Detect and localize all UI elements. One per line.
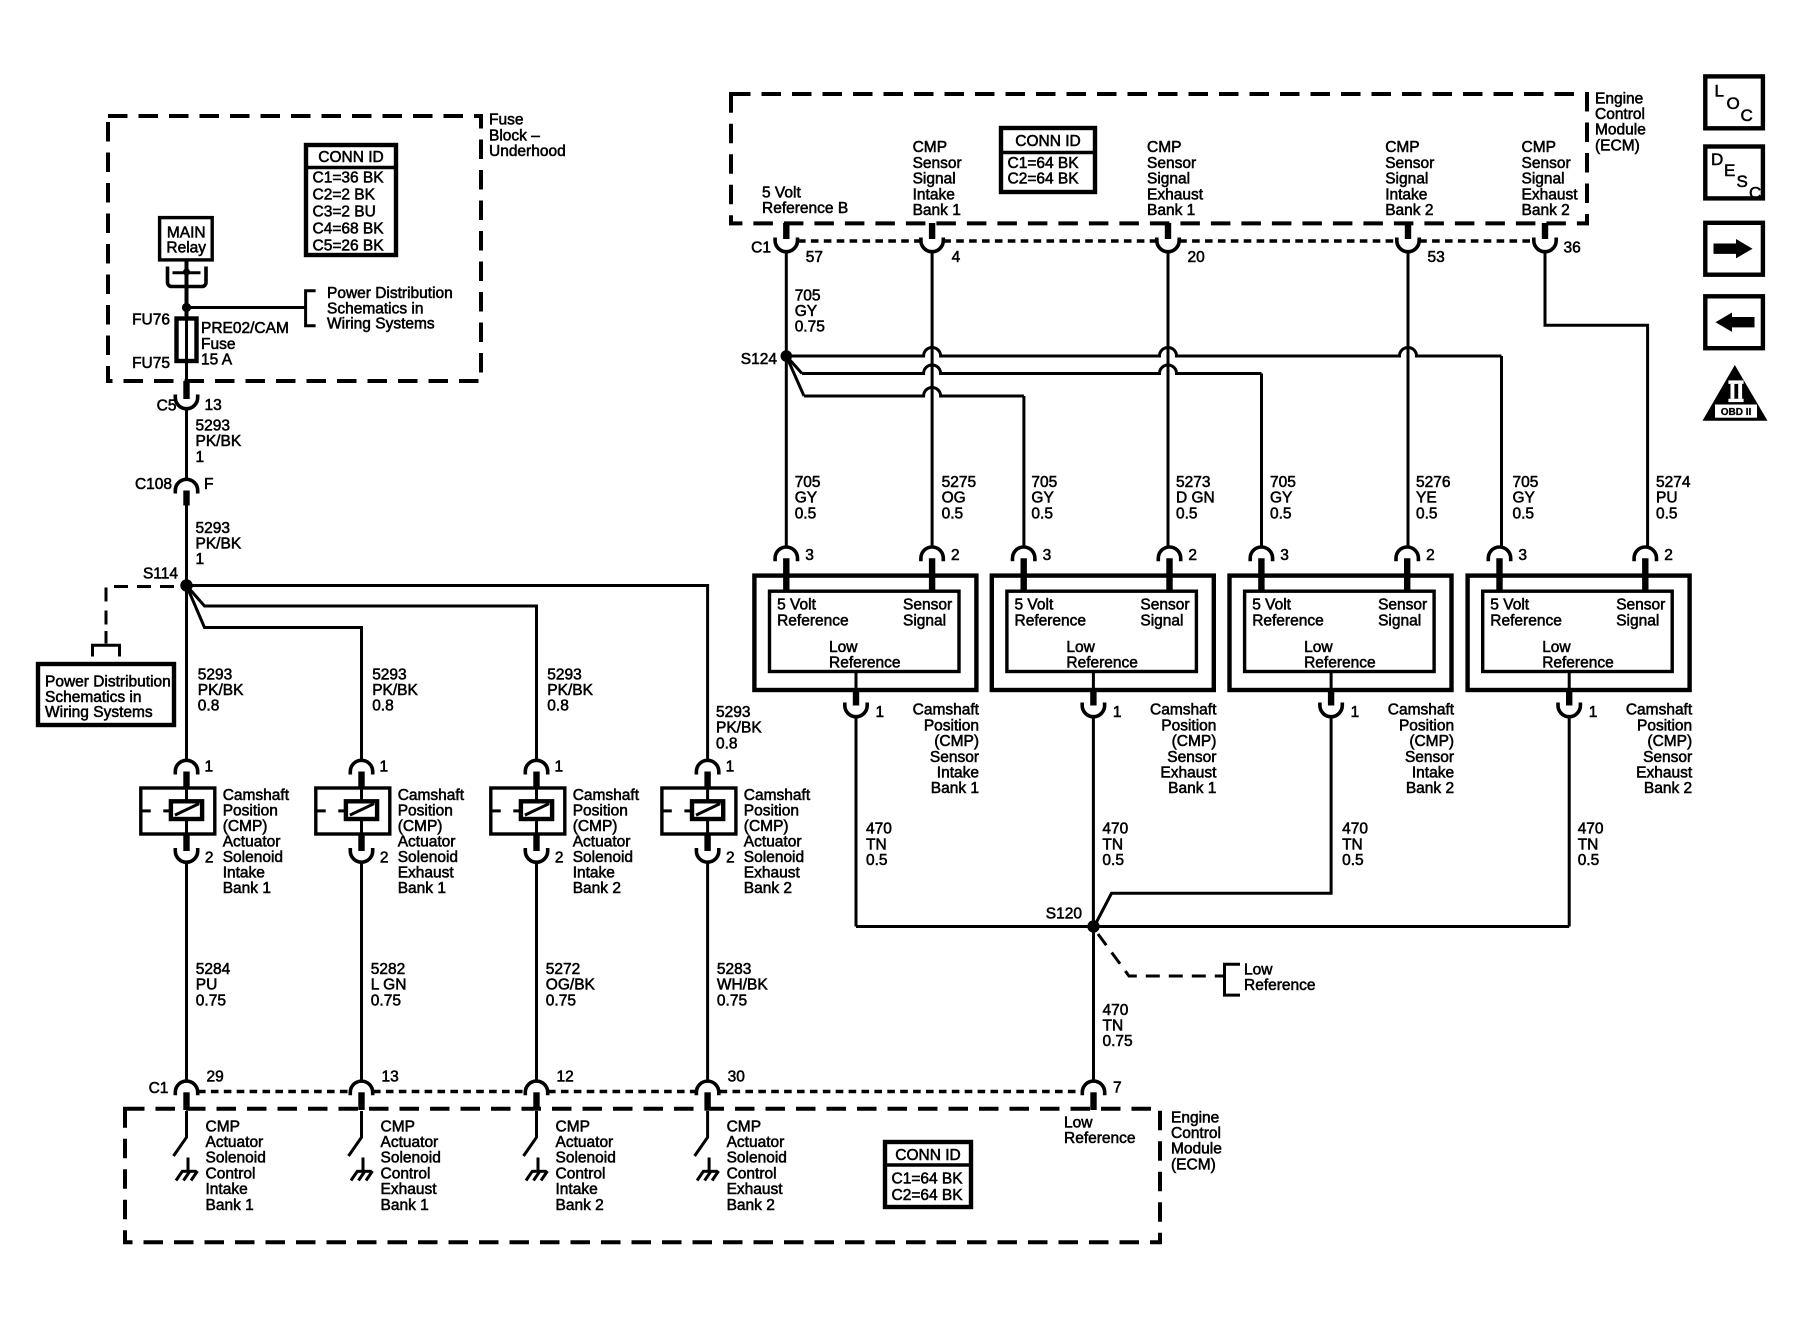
svg-text:C1=64 BK: C1=64 BK [1008, 155, 1080, 172]
svg-text:Sensor: Sensor [1140, 597, 1189, 614]
svg-text:1: 1 [1351, 704, 1360, 721]
svg-text:1: 1 [726, 759, 735, 776]
svg-text:Sensor: Sensor [913, 155, 962, 172]
svg-text:Engine: Engine [1595, 90, 1643, 107]
svg-text:5273: 5273 [1176, 474, 1210, 491]
svg-text:OG/BK: OG/BK [546, 977, 596, 994]
wire solenoid L3 to ECM pin 12, circuit 5272 OG/BK 0.75 [535, 862, 538, 1081]
ECM top pin 36 connector [1542, 223, 1548, 239]
svg-text:WH/BK: WH/BK [717, 977, 768, 994]
svg-text:(CMP): (CMP) [1409, 733, 1454, 750]
svg-text:0.8: 0.8 [716, 735, 738, 752]
svg-text:CMP: CMP [1385, 139, 1419, 156]
svg-text:0.5: 0.5 [1176, 505, 1198, 522]
ECM top pin 53 connector [1405, 223, 1411, 239]
svg-text:Position: Position [398, 802, 453, 819]
svg-text:470: 470 [1103, 1002, 1129, 1019]
svg-text:C1: C1 [751, 240, 771, 257]
svg-text:Exhaust: Exhaust [1522, 186, 1579, 203]
svg-text:Sensor: Sensor [1643, 749, 1692, 766]
svg-text:C1: C1 [149, 1080, 169, 1097]
svg-text:0.5: 0.5 [1513, 505, 1535, 522]
svg-text:(ECM): (ECM) [1595, 137, 1640, 154]
svg-text:Low: Low [1304, 639, 1333, 656]
svg-text:Bank 1: Bank 1 [206, 1197, 254, 1214]
svg-text:Signal: Signal [903, 613, 946, 630]
svg-text:5276: 5276 [1416, 474, 1450, 491]
wire ECM pin 36 to sensor exhaust bank 2 signal, circuit 5274 PU 0.5 [1545, 252, 1648, 548]
svg-text:PK/BK: PK/BK [547, 682, 593, 699]
svg-text:0.5: 0.5 [1031, 505, 1053, 522]
svg-text:2: 2 [1188, 547, 1197, 564]
svg-text:2: 2 [1664, 547, 1673, 564]
svg-text:Position: Position [744, 802, 799, 819]
svg-text:5 Volt: 5 Volt [762, 184, 801, 201]
wire S114 branch to CMP actuator solenoid exhaust bank 1 (line C) [187, 586, 362, 762]
ECM bottom pin 29 connector [175, 1081, 197, 1095]
svg-text:5272: 5272 [546, 961, 580, 978]
icon OBD II triangle [1703, 365, 1768, 421]
sensor B1 pin 3 connector (intake bank 1) [775, 547, 797, 561]
svg-text:PK/BK: PK/BK [716, 720, 762, 737]
svg-text:Engine: Engine [1171, 1109, 1219, 1126]
svg-text:0.5: 0.5 [1270, 505, 1292, 522]
svg-text:470: 470 [1102, 821, 1128, 838]
svg-text:Exhaust: Exhaust [1147, 186, 1204, 203]
svg-text:2: 2 [205, 850, 214, 867]
wire sensor exhaust bank 2 low reference to S120, circuit 470 TN 0.5 [1568, 717, 1571, 927]
svg-text:Exhaust: Exhaust [727, 1181, 784, 1198]
svg-text:C4=68 BK: C4=68 BK [313, 220, 385, 237]
svg-text:Actuator: Actuator [744, 833, 802, 850]
svg-text:5283: 5283 [717, 961, 751, 978]
svg-text:Underhood: Underhood [489, 143, 566, 160]
svg-text:S: S [1737, 172, 1748, 191]
svg-text:Intake: Intake [573, 864, 615, 881]
solenoid L4 pin 2 connector (exhaust bank 2) [704, 834, 710, 851]
wire ECM pin 4 to sensor intake bank 1 signal, circuit 5275 OG 0.5 [931, 252, 934, 548]
relay MAIN Relay box [160, 218, 213, 260]
icon forward arrow box [1705, 223, 1763, 275]
svg-text:PK/BK: PK/BK [372, 682, 418, 699]
svg-text:Position: Position [1161, 717, 1216, 734]
wire C108 to splice S114, circuit 5293 PK/BK 1 [185, 505, 188, 586]
ECM top dashed box [731, 94, 1587, 223]
wire solenoid L4 to ECM pin 30, circuit 5283 WH/BK 0.75 [706, 862, 709, 1081]
sensor B1 pin 1 connector (intake bank 1) [855, 672, 858, 691]
sensor B1 CMP sensor box (intake bank 1) [754, 576, 976, 690]
svg-text:L: L [1715, 82, 1724, 101]
wire S124 down to sensor intake bank 1 5 volt reference [785, 356, 788, 548]
svg-text:0.5: 0.5 [1102, 852, 1124, 869]
svg-text:15 A: 15 A [201, 352, 233, 369]
svg-text:Module: Module [1171, 1141, 1222, 1158]
svg-text:5293: 5293 [716, 704, 750, 721]
svg-text:Exhaust: Exhaust [398, 864, 455, 881]
ECM driver switch symbol for exhaust bank 2 [695, 1111, 708, 1156]
svg-text:Signal: Signal [1147, 171, 1190, 188]
svg-text:0.75: 0.75 [546, 992, 576, 1009]
svg-text:3: 3 [805, 547, 814, 564]
svg-text:Camshaft: Camshaft [223, 787, 290, 804]
svg-text:(CMP): (CMP) [934, 733, 979, 750]
svg-text:CONN ID: CONN ID [895, 1147, 960, 1164]
svg-text:Position: Position [223, 802, 278, 819]
svg-text:5275: 5275 [942, 474, 976, 491]
svg-text:Solenoid: Solenoid [223, 849, 283, 866]
ECM bottom pin 13 connector [350, 1081, 372, 1095]
svg-text:2: 2 [726, 850, 735, 867]
solenoid L4 pin 1 connector (exhaust bank 2) [696, 760, 718, 774]
svg-text:Intake: Intake [556, 1181, 598, 1198]
ECM top pin 20 connector [1165, 223, 1171, 239]
wire solenoid L2 to ECM pin 13, circuit 5282 L GN 0.75 [360, 862, 363, 1081]
svg-text:CMP: CMP [1522, 139, 1556, 156]
splice S120 [1087, 920, 1099, 932]
solenoid L3 pin 2 connector (intake bank 2) [533, 834, 539, 851]
svg-text:1: 1 [876, 704, 885, 721]
svg-text:Low: Low [1064, 1114, 1093, 1131]
svg-text:Sensor: Sensor [1167, 749, 1216, 766]
svg-text:Bank 1: Bank 1 [381, 1197, 429, 1214]
svg-text:Low: Low [1244, 961, 1273, 978]
svg-text:13: 13 [205, 397, 222, 414]
svg-text:Solenoid: Solenoid [398, 849, 458, 866]
svg-text:TN: TN [1578, 836, 1599, 853]
svg-text:Camshaft: Camshaft [913, 702, 980, 719]
wire fuse to connector C5 pin 13 [183, 381, 189, 399]
svg-text:PK/BK: PK/BK [196, 433, 242, 450]
svg-text:TN: TN [1102, 836, 1123, 853]
ECM top dotted connector face line [798, 239, 921, 243]
wire S124 to sensor exhaust bank 1 5 volt reference (line C) [786, 356, 804, 396]
svg-text:Actuator: Actuator [556, 1134, 614, 1151]
svg-text:Exhaust: Exhaust [381, 1181, 438, 1198]
svg-text:PRE02/CAM: PRE02/CAM [201, 320, 289, 337]
svg-text:S114: S114 [143, 565, 178, 582]
svg-text:C: C [1749, 184, 1761, 203]
wire S124 to sensor intake bank 2 5 volt reference (line B) [786, 356, 802, 374]
ECM bottom dashed box [125, 1109, 1160, 1243]
svg-text:Actuator: Actuator [573, 833, 631, 850]
svg-text:Intake: Intake [206, 1181, 248, 1198]
svg-text:1: 1 [196, 551, 205, 568]
svg-text:0.8: 0.8 [198, 698, 220, 715]
svg-text:Bank 1: Bank 1 [1147, 202, 1195, 219]
svg-text:5 Volt: 5 Volt [1252, 597, 1291, 614]
svg-text:0.5: 0.5 [1416, 505, 1438, 522]
svg-text:5 Volt: 5 Volt [1015, 597, 1054, 614]
svg-text:0.5: 0.5 [1578, 852, 1600, 869]
connector id table (ECM bottom) [885, 1142, 971, 1207]
svg-text:Block –: Block – [489, 127, 540, 144]
wire ECM pin 53 to sensor intake bank 2 signal, circuit 5276 YE 0.5 [1407, 252, 1410, 548]
svg-text:5282: 5282 [371, 961, 405, 978]
svg-text:PU: PU [1656, 490, 1678, 507]
icon DESC box [1705, 147, 1763, 199]
svg-text:Intake: Intake [1385, 186, 1427, 203]
svg-text:5 Volt: 5 Volt [777, 597, 816, 614]
svg-text:1: 1 [380, 759, 389, 776]
solenoid L3 pin 1 connector (intake bank 2) [525, 760, 547, 774]
svg-text:705: 705 [1513, 474, 1539, 491]
svg-text:30: 30 [728, 1069, 746, 1086]
ECM driver switch symbol for exhaust bank 1 [349, 1111, 362, 1156]
svg-text:1: 1 [1113, 704, 1122, 721]
svg-text:C1=36 BK: C1=36 BK [313, 169, 385, 186]
fuse FU76/FU75 PRE02/CAM 15A [185, 318, 188, 381]
svg-text:Camshaft: Camshaft [1388, 702, 1455, 719]
svg-text:Control: Control [206, 1165, 256, 1182]
svg-text:(CMP): (CMP) [1647, 733, 1692, 750]
svg-text:Position: Position [1637, 717, 1692, 734]
sensor B2 pin 3 connector (exhaust bank 1) [1013, 547, 1035, 561]
svg-text:Bank 2: Bank 2 [1522, 202, 1570, 219]
sensor B3 pin 1 connector (intake bank 2) [1330, 672, 1333, 691]
svg-text:470: 470 [866, 821, 892, 838]
svg-text:Low: Low [829, 639, 858, 656]
svg-text:PU: PU [196, 977, 218, 994]
svg-text:(CMP): (CMP) [223, 818, 268, 835]
connector id table (fuse block) C1-C5 [306, 145, 396, 255]
svg-text:D GN: D GN [1176, 490, 1215, 507]
svg-text:20: 20 [1188, 249, 1206, 266]
connector C5 pin 13 [175, 395, 197, 409]
wire S124 to sensor exhaust bank 2 5 volt reference (line A) [786, 348, 1501, 357]
svg-text:CMP: CMP [913, 139, 947, 156]
dashed stub S120 to low reference note [1098, 934, 1223, 976]
wire solenoid L1 to ECM pin 29, circuit 5284 PU 0.75 [185, 862, 188, 1081]
svg-text:Sensor: Sensor [1147, 155, 1196, 172]
svg-text:PK/BK: PK/BK [198, 682, 244, 699]
svg-text:470: 470 [1578, 821, 1604, 838]
svg-text:C108: C108 [135, 476, 172, 493]
ECM driver ground hatch for exhaust bank 1 [362, 1158, 365, 1172]
svg-text:Sensor: Sensor [1522, 155, 1571, 172]
svg-text:Reference: Reference [1015, 613, 1087, 630]
svg-text:Control: Control [1595, 106, 1645, 123]
svg-text:12: 12 [557, 1069, 574, 1086]
low reference bus wire into S120 [856, 925, 1569, 928]
svg-text:(CMP): (CMP) [744, 818, 789, 835]
svg-text:705: 705 [1270, 474, 1296, 491]
svg-text:CMP: CMP [727, 1118, 761, 1135]
svg-text:705: 705 [1031, 474, 1057, 491]
svg-text:S124: S124 [741, 351, 778, 368]
svg-text:CONN ID: CONN ID [318, 149, 383, 166]
svg-text:L GN: L GN [371, 977, 407, 994]
svg-text:Intake: Intake [223, 864, 265, 881]
svg-text:5284: 5284 [196, 961, 231, 978]
svg-text:GY: GY [795, 490, 817, 507]
svg-text:2: 2 [555, 850, 564, 867]
sensor B2 pin 2 connector (exhaust bank 1) [1158, 547, 1180, 561]
svg-text:0.75: 0.75 [1103, 1033, 1133, 1050]
svg-text:1: 1 [196, 449, 205, 466]
wire ECM pin 57 to splice S124, circuit 705 GY 0.75 [785, 252, 788, 356]
svg-text:GY: GY [1270, 490, 1292, 507]
svg-text:FU75: FU75 [132, 355, 170, 372]
svg-text:CMP: CMP [381, 1118, 415, 1135]
svg-text:0.5: 0.5 [795, 505, 817, 522]
svg-text:1: 1 [555, 759, 564, 776]
svg-text:7: 7 [1113, 1080, 1122, 1097]
svg-text:Exhaust: Exhaust [1160, 765, 1217, 782]
icon LOC box [1705, 76, 1763, 128]
svg-text:5293: 5293 [196, 418, 230, 435]
svg-text:C3=2 BU: C3=2 BU [313, 203, 376, 220]
svg-text:Bank 1: Bank 1 [398, 880, 446, 897]
icon back arrow box [1705, 296, 1763, 348]
svg-text:PK/BK: PK/BK [196, 536, 242, 553]
ECM driver switch symbol for intake bank 2 [524, 1111, 537, 1156]
ECM top pin 57 connector [783, 223, 789, 239]
bracket to power distribution schematics (off-page) [306, 291, 316, 326]
sensor B3 pin 2 connector (intake bank 2) [1396, 547, 1418, 561]
svg-text:Position: Position [924, 717, 979, 734]
svg-text:OG: OG [942, 490, 966, 507]
svg-text:13: 13 [382, 1069, 399, 1086]
svg-text:5293: 5293 [198, 666, 232, 683]
svg-text:Control: Control [381, 1165, 431, 1182]
svg-text:0.5: 0.5 [1656, 505, 1678, 522]
svg-text:C2=64 BK: C2=64 BK [892, 1187, 964, 1204]
wire sensor intake bank 2 low reference to S120, circuit 470 TN 0.5 [1096, 717, 1332, 924]
svg-text:Intake: Intake [1412, 765, 1454, 782]
svg-text:36: 36 [1564, 240, 1581, 257]
svg-text:5 Volt: 5 Volt [1490, 597, 1529, 614]
svg-text:Wiring Systems: Wiring Systems [45, 704, 153, 721]
junction node above fuse FU76 [182, 303, 191, 312]
svg-text:0.75: 0.75 [717, 992, 747, 1009]
svg-text:53: 53 [1428, 249, 1445, 266]
power distribution schematics box (left) [38, 664, 174, 725]
svg-text:(ECM): (ECM) [1171, 1156, 1216, 1173]
svg-text:0.8: 0.8 [547, 698, 569, 715]
wire S114 branch to CMP actuator solenoid exhaust bank 2 (line A) [187, 586, 708, 762]
svg-text:Reference B: Reference B [762, 200, 848, 217]
svg-text:Signal: Signal [913, 171, 956, 188]
sensor B4 pin 3 connector (exhaust bank 2) [1488, 547, 1510, 561]
svg-text:Bank 1: Bank 1 [1168, 780, 1216, 797]
wire junction to power distribution bracket [187, 306, 306, 309]
wire sensor intake bank 1 low reference to S120, circuit 470 TN 0.5 [855, 717, 858, 927]
svg-text:705: 705 [795, 287, 821, 304]
sensor B4 pin 1 connector (exhaust bank 2) [1568, 672, 1571, 691]
svg-text:705: 705 [795, 474, 821, 491]
svg-text:470: 470 [1342, 821, 1368, 838]
svg-text:(CMP): (CMP) [573, 818, 618, 835]
solenoid L4 CMP actuator solenoid coil (exhaust bank 2) [662, 788, 736, 834]
svg-text:Solenoid: Solenoid [573, 849, 633, 866]
svg-text:Bank 2: Bank 2 [556, 1197, 604, 1214]
svg-text:C2=2 BK: C2=2 BK [313, 186, 376, 203]
svg-text:2: 2 [951, 547, 960, 564]
svg-text:C: C [1741, 106, 1753, 125]
svg-text:Signal: Signal [1385, 171, 1428, 188]
svg-text:C2=64 BK: C2=64 BK [1008, 171, 1080, 188]
solenoid L1 pin 1 connector (intake bank 1) [175, 760, 197, 774]
svg-text:Actuator: Actuator [381, 1134, 439, 1151]
svg-text:Reference: Reference [1066, 655, 1138, 672]
svg-text:Camshaft: Camshaft [744, 787, 811, 804]
sensor B2 CMP sensor box (exhaust bank 1) [992, 576, 1214, 690]
connector id table (ECM top) [1001, 128, 1095, 192]
ECM driver ground hatch for intake bank 1 [187, 1158, 190, 1172]
svg-text:Reference: Reference [1490, 613, 1562, 630]
svg-text:2: 2 [1426, 547, 1435, 564]
svg-text:Control: Control [727, 1165, 777, 1182]
svg-text:FU76: FU76 [132, 312, 170, 329]
svg-text:Signal: Signal [1522, 171, 1565, 188]
svg-text:3: 3 [1043, 547, 1052, 564]
ECM bottom pin 12 connector [525, 1081, 547, 1095]
svg-text:Low: Low [1066, 639, 1095, 656]
svg-text:2: 2 [380, 850, 389, 867]
ECM top pin 4 connector [929, 223, 935, 239]
ECM bottom pin 30 connector [696, 1081, 718, 1095]
svg-text:Control: Control [556, 1165, 606, 1182]
svg-text:0.5: 0.5 [866, 852, 888, 869]
svg-text:5293: 5293 [547, 666, 581, 683]
svg-text:0.75: 0.75 [795, 319, 825, 336]
svg-text:Position: Position [1399, 717, 1454, 734]
solenoid L1 CMP actuator solenoid coil (intake bank 1) [141, 788, 215, 834]
wire S114 branch to CMP actuator solenoid intake bank 2 (line B) [187, 586, 537, 762]
svg-text:CMP: CMP [206, 1118, 240, 1135]
svg-text:57: 57 [806, 249, 823, 266]
svg-text:Solenoid: Solenoid [556, 1150, 616, 1167]
wire C5 to C108, circuit 5293 PK/BK 1 [185, 409, 188, 481]
sensor B2 pin 1 connector (exhaust bank 1) [1092, 672, 1095, 691]
svg-text:Signal: Signal [1378, 613, 1421, 630]
svg-text:Exhaust: Exhaust [1636, 765, 1693, 782]
wire relay to junction and fuse [185, 260, 189, 320]
svg-text:OBD II: OBD II [1721, 407, 1752, 418]
svg-text:Bank 2: Bank 2 [727, 1197, 775, 1214]
svg-text:Reference: Reference [1244, 977, 1316, 994]
svg-text:Actuator: Actuator [206, 1134, 264, 1151]
svg-text:Exhaust: Exhaust [744, 864, 801, 881]
relay contact cup symbol [168, 267, 207, 287]
svg-text:Reference: Reference [829, 655, 901, 672]
svg-text:Signal: Signal [1140, 613, 1183, 630]
ECM bottom pin 7 connector [1082, 1081, 1104, 1095]
svg-text:Solenoid: Solenoid [381, 1150, 441, 1167]
svg-text:F: F [204, 476, 213, 493]
solenoid L2 CMP actuator solenoid coil (exhaust bank 1) [316, 788, 390, 834]
svg-text:GY: GY [1031, 490, 1053, 507]
svg-text:TN: TN [866, 836, 887, 853]
svg-text:Bank 1: Bank 1 [223, 880, 271, 897]
svg-text:CMP: CMP [1147, 139, 1181, 156]
svg-text:0.75: 0.75 [371, 992, 401, 1009]
svg-text:Bank 2: Bank 2 [744, 880, 792, 897]
solenoid L2 pin 2 connector (exhaust bank 1) [358, 834, 364, 851]
connector C108 pin F [175, 479, 197, 493]
sensor B3 CMP sensor box (intake bank 2) [1230, 576, 1452, 690]
svg-text:Fuse: Fuse [201, 336, 235, 353]
svg-text:5293: 5293 [372, 666, 406, 683]
svg-text:(CMP): (CMP) [1172, 733, 1217, 750]
svg-text:Module: Module [1595, 122, 1646, 139]
splice S114 [180, 579, 192, 591]
sensor B4 CMP sensor box (exhaust bank 2) [1468, 576, 1690, 690]
svg-text:TN: TN [1103, 1018, 1124, 1035]
svg-text:3: 3 [1518, 547, 1527, 564]
svg-text:Intake: Intake [913, 186, 955, 203]
svg-text:Reference: Reference [1064, 1130, 1136, 1147]
